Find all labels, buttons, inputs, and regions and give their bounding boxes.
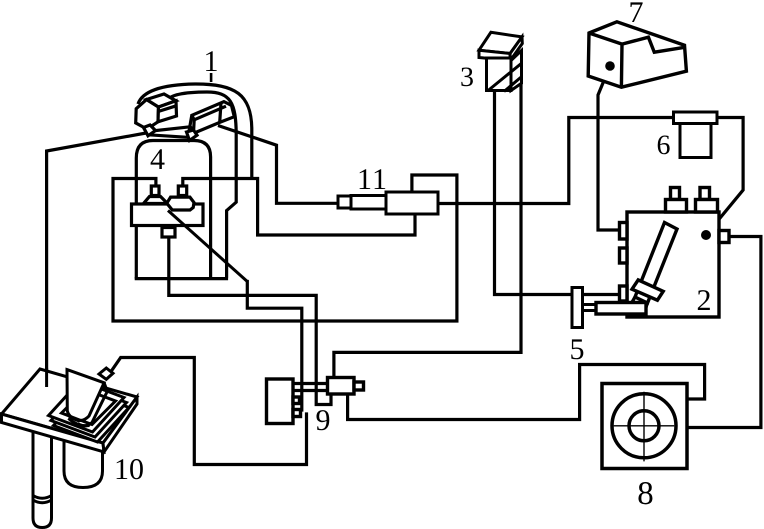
box 2 left tab 1 — [620, 223, 628, 240]
label 11 — [360, 169, 386, 189]
wire tip resting on sensor 10 plate — [45, 368, 48, 387]
box 2 left tab 3 — [620, 286, 628, 301]
left hex cap boot tip — [144, 125, 156, 136]
label 6 — [658, 135, 670, 154]
coil right post cap — [178, 186, 186, 196]
wire: relay 3 right leg down-left to plug of 9 — [334, 84, 521, 378]
lever collar — [632, 280, 663, 300]
spark plug cap (left hex block) — [136, 94, 177, 136]
label 4 — [151, 149, 165, 169]
label 1 — [206, 51, 217, 71]
box 2 right tab — [719, 231, 729, 243]
wire: coil diagonal upper segment over the bar — [168, 211, 247, 282]
pump 8 (box with concentric circles) — [602, 384, 687, 469]
wire: plug of 9 to pump 8 left loop — [348, 365, 705, 420]
dish inner cavity — [62, 390, 116, 425]
wedge funnel front face — [67, 370, 104, 421]
box 2 post 2 — [700, 188, 710, 200]
label 8 — [638, 482, 652, 504]
coil right boot — [167, 197, 194, 210]
wire: coil diagonal lower part down to connector 9 prong (W4) — [247, 282, 301, 411]
wire: sensor 10 tab to connector 9 bottom prong — [111, 358, 307, 465]
injector 11 — [338, 192, 438, 214]
base plate of 10 — [2, 369, 138, 443]
wire: connector 9 pin lines to plug — [293, 384, 328, 391]
link from bracket 5 to rod — [583, 305, 597, 311]
wedge bottom lip — [68, 418, 89, 425]
connector tab on 10 — [99, 368, 113, 379]
label 1 leader tick — [210, 73, 213, 82]
right hex cap boot tip — [187, 130, 198, 141]
switch 6 (cap and body) — [674, 112, 718, 158]
spark plug cap (right hex block, tilted) — [187, 102, 235, 141]
relay 3 with hatched body — [479, 32, 522, 91]
wire pair: left hex cap foot to right hex cap foot — [148, 127, 193, 138]
wire: injector 11 right to switch 6 cap — [438, 118, 674, 204]
label 7 — [630, 2, 642, 22]
control box 2 — [620, 188, 730, 318]
wide cylinder — [64, 430, 103, 488]
label 5 — [571, 339, 583, 359]
wire: coil stem down-right to connector 9 plug (W3) — [169, 236, 331, 405]
label 10 — [117, 459, 143, 479]
label 2 — [698, 290, 710, 310]
thin cylinder — [33, 428, 52, 528]
label 9 — [316, 410, 329, 430]
HT cable arc 1 — [138, 84, 252, 278]
box 2 terminal dot — [701, 230, 711, 240]
wire: dome bottom horizontal — [136, 277, 226, 280]
coil bottom stem square — [162, 228, 175, 238]
wire: relay 3 left leg down to bracket 5 and box 2 lower tab — [495, 91, 621, 295]
wire: injector top loop to left coil post (W1) — [113, 175, 457, 321]
wire: left hex cap foot to vertical at left edge down to sensor 10 (L1) — [47, 133, 146, 387]
distributor dome 4 — [136, 141, 210, 279]
rod connecting bracket 5 to lever — [596, 303, 646, 315]
box 2 post 1 — [671, 188, 680, 200]
connector 9 (box with prongs) — [267, 378, 364, 424]
bracket 5 (vertical bar) — [572, 288, 583, 328]
plug of 9 — [328, 378, 355, 395]
wire: battery 7 dot down to box 2 left tab — [598, 66, 620, 230]
coil left post cap — [151, 186, 159, 196]
battery 7 terminal dot — [605, 61, 615, 71]
wedge funnel side band — [78, 383, 107, 426]
dish slabs (stacked tray) — [54, 391, 130, 442]
lever shaft in box 2 — [630, 223, 678, 314]
label 3 — [461, 67, 473, 86]
coil left post trapezoid — [144, 197, 168, 204]
wire: right coil post to injector bottom (W2) — [183, 179, 415, 236]
ignition coil bar inside dome — [132, 186, 204, 237]
wire: right hex cap to injector 11 (L2) — [220, 126, 339, 203]
sensor 10 (3D assembly) — [33, 428, 103, 528]
wire: box 2 right tab to pump 8 right side — [688, 237, 761, 428]
battery 7 (3D box with notch) — [588, 22, 686, 87]
wire: switch 6 cap right to box 2 dot — [706, 118, 743, 236]
box 2 left tab 2 — [620, 248, 628, 263]
